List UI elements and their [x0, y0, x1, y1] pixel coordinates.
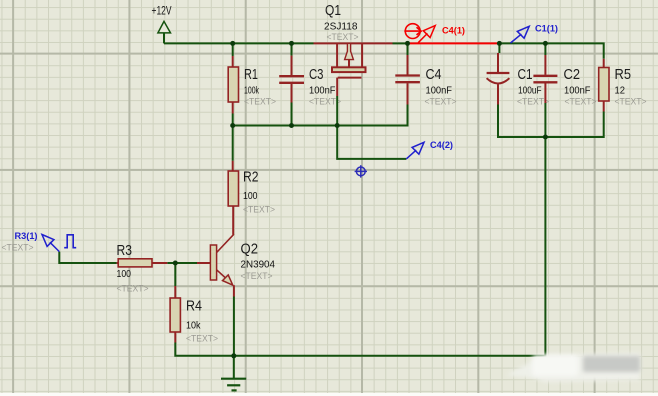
resistor R5: [599, 59, 647, 112]
svg-text:<TEXT>: <TEXT>: [244, 97, 276, 107]
wire red probe segment: [408, 42, 500, 44]
svg-text:<TEXT>: <TEXT>: [425, 97, 457, 107]
svg-text:<TEXT>: <TEXT>: [243, 205, 275, 215]
wire emitter to bottom rail: [233, 297, 235, 356]
node F mid rail R1/R2: [230, 123, 235, 128]
svg-text:R3(1): R3(1): [15, 231, 38, 241]
svg-text:Q1: Q1: [325, 3, 341, 19]
svg-text:10k: 10k: [186, 320, 201, 332]
svg-text:<TEXT>: <TEXT>: [327, 32, 359, 42]
svg-text:100nF: 100nF: [309, 85, 336, 97]
wire gate stub to probe: [337, 126, 406, 159]
wire Q1 drain to node: [393, 42, 408, 44]
wire R3 to base node: [167, 262, 197, 264]
svg-text:R2: R2: [243, 170, 259, 186]
svg-text:2N3904: 2N3904: [241, 258, 276, 270]
svg-text:<TEXT>: <TEXT>: [241, 271, 273, 281]
wire mid rail: [233, 105, 408, 126]
voltage probe C1(1): [511, 24, 559, 44]
svg-text:100k: 100k: [244, 85, 259, 97]
svg-text:<TEXT>: <TEXT>: [2, 243, 34, 253]
svg-text:R5: R5: [615, 67, 632, 83]
svg-text:C1: C1: [518, 67, 533, 83]
node C drain/C4: [405, 41, 410, 46]
svg-text:C4(2): C4(2): [430, 140, 453, 150]
svg-text:<TEXT>: <TEXT>: [517, 97, 549, 107]
resistor R3: [117, 243, 168, 294]
svg-text:100nF: 100nF: [564, 85, 591, 97]
svg-text:R3: R3: [117, 243, 133, 259]
capacitor C1: [487, 43, 549, 106]
resistor R2: [228, 126, 275, 235]
node E C2 top: [543, 41, 548, 46]
node B top rail C3: [289, 41, 294, 46]
svg-text:100nF: 100nF: [426, 85, 453, 97]
node A top rail R1: [230, 41, 235, 46]
node I C2 bottom: [543, 135, 548, 140]
svg-text:C4(1): C4(1): [442, 26, 465, 36]
svg-text:2SJ118: 2SJ118: [324, 20, 358, 32]
svg-text:<TEXT>: <TEXT>: [565, 97, 597, 107]
wire input to R3: [59, 252, 116, 263]
resistor R4: [170, 263, 218, 344]
transistor Q2 (2N3904 NPN): [197, 234, 275, 296]
resistor R1: [228, 43, 276, 125]
wire bottom-right rail: [498, 105, 604, 138]
node K emitter/ground: [231, 353, 236, 358]
svg-text:100uF: 100uF: [518, 85, 542, 97]
transistor Q1 (2SJ118 MOSFET): [314, 3, 393, 126]
node J base node: [173, 261, 178, 266]
voltage probe C4(2): [406, 140, 453, 159]
power +12V: [152, 4, 172, 44]
svg-text:R1: R1: [244, 67, 258, 83]
origin marker: [355, 165, 367, 177]
wire top rail left: [164, 42, 314, 44]
svg-text:100: 100: [117, 268, 132, 280]
svg-text:Q2: Q2: [241, 242, 259, 258]
node H mid rail gate: [335, 123, 340, 128]
node D C1 top: [497, 41, 502, 46]
svg-text:<TEXT>: <TEXT>: [186, 334, 218, 344]
capacitor C3: [279, 43, 341, 125]
svg-text:12: 12: [615, 85, 626, 97]
svg-text:C3: C3: [309, 67, 324, 83]
ground: [221, 356, 246, 391]
wire top rail right: [499, 43, 603, 58]
capacitor C2: [533, 43, 596, 137]
svg-text:+12V: +12V: [152, 4, 172, 18]
pulse generator R3(1): [2, 231, 77, 253]
svg-text:C2: C2: [564, 67, 581, 83]
svg-text:R4: R4: [186, 299, 202, 315]
svg-text:100: 100: [243, 190, 258, 202]
svg-text:<TEXT>: <TEXT>: [117, 284, 149, 294]
current probe C4(1): [404, 24, 465, 43]
svg-text:C1(1): C1(1): [535, 24, 558, 34]
node G mid rail C3: [289, 123, 294, 128]
svg-text:C4: C4: [426, 67, 442, 83]
svg-text:<TEXT>: <TEXT>: [615, 97, 647, 107]
capacitor C4: [395, 43, 456, 106]
wire right vertical and bottom rail: [175, 137, 545, 356]
